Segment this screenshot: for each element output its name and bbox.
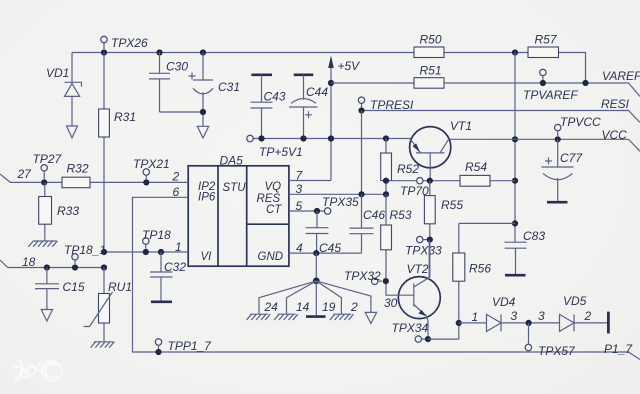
svg-text:VD4: VD4 xyxy=(492,295,516,309)
svg-text:R32: R32 xyxy=(67,162,89,176)
junction rail +5V vertical xyxy=(328,135,334,141)
test point TPX34 xyxy=(392,321,429,342)
svg-text:R54: R54 xyxy=(465,160,487,174)
test point TP18 xyxy=(142,228,171,249)
svg-text:TPVCC: TPVCC xyxy=(560,115,601,129)
svg-text:RESI: RESI xyxy=(601,97,630,111)
svg-text:R52: R52 xyxy=(397,162,419,176)
ground bar below C77 xyxy=(547,201,568,204)
junction R51 tap xyxy=(328,80,334,86)
ground arrow below VD1 xyxy=(67,126,78,138)
svg-text:3: 3 xyxy=(511,309,518,323)
svg-text:C83: C83 xyxy=(523,229,545,243)
wire fan to ground 14 xyxy=(287,281,317,314)
test point TP18_1 xyxy=(64,243,106,264)
wire top +5V line xyxy=(72,53,586,84)
svg-text:R33: R33 xyxy=(57,204,79,218)
test point TPX35 xyxy=(322,195,359,214)
capacitor C46 xyxy=(350,194,386,253)
svg-text:TPX32: TPX32 xyxy=(344,269,381,283)
svg-text:C43: C43 xyxy=(264,90,286,104)
svg-text:RU1: RU1 xyxy=(108,280,132,294)
svg-text:5: 5 xyxy=(296,199,303,213)
wire pin3 row xyxy=(289,182,386,196)
svg-text:+5V: +5V xyxy=(338,59,361,73)
svg-text:R57: R57 xyxy=(535,33,558,47)
resistor R53 xyxy=(381,194,412,295)
svg-text:VD5: VD5 xyxy=(563,294,587,308)
junction 18 row C15 xyxy=(44,264,50,270)
junction top wire at C31 xyxy=(200,49,206,55)
svg-text:1: 1 xyxy=(175,240,182,254)
junction x515 VCC row xyxy=(512,136,518,142)
wire pin4 down to ground star xyxy=(315,253,317,281)
junction R50/R57 xyxy=(512,49,518,55)
svg-text:C15: C15 xyxy=(63,280,85,294)
wire VAREF row xyxy=(444,83,640,97)
svg-text:6: 6 xyxy=(173,185,180,199)
junction pin5 C45 xyxy=(314,208,320,214)
watermark xyxy=(14,361,62,381)
svg-text:TPX26: TPX26 xyxy=(111,36,148,50)
svg-text:P1_7: P1_7 xyxy=(604,342,633,356)
svg-text:TP+5V1: TP+5V1 xyxy=(259,145,303,159)
test point TP+5V1 xyxy=(247,135,303,159)
wire fan to ground 2 xyxy=(316,281,358,314)
svg-text:CT: CT xyxy=(266,204,282,216)
wire x515 vertical xyxy=(514,53,516,243)
capacitor C44 polar xyxy=(289,75,328,139)
junction pin1 row TP18 xyxy=(143,249,149,255)
capacitor C30 xyxy=(149,53,188,113)
diode VD4 xyxy=(487,295,516,331)
resistor R54 xyxy=(460,160,490,186)
svg-text:C32: C32 xyxy=(164,260,186,274)
wire emitter to VD row xyxy=(428,323,459,339)
svg-text:2: 2 xyxy=(584,309,592,323)
svg-text:TPX21: TPX21 xyxy=(133,157,170,171)
svg-text:4: 4 xyxy=(296,241,303,255)
wire pin1 row xyxy=(104,240,188,254)
test point TP27 xyxy=(33,152,63,185)
test point TPP1_7 xyxy=(155,339,212,355)
wire RESI row xyxy=(362,111,640,123)
junction 18 row TP18_1 xyxy=(72,264,78,270)
junction pin3 row R52/R53 xyxy=(383,191,389,197)
junction base row VT1 xyxy=(427,178,433,184)
junction top wire at TPX26 xyxy=(101,49,107,55)
svg-text:2: 2 xyxy=(172,170,180,184)
svg-text:1: 1 xyxy=(472,310,479,324)
junction rail R52 xyxy=(383,135,389,141)
node VAREF xyxy=(602,69,640,83)
ground bar above C44 xyxy=(294,74,314,77)
capacitor C77 polar xyxy=(542,139,584,201)
test point TPX57 xyxy=(525,323,576,358)
ground hatched 24 xyxy=(247,314,271,320)
svg-text:R31: R31 xyxy=(114,110,136,124)
junction 18 row RU1 xyxy=(101,264,107,270)
power +5V arrow xyxy=(328,56,360,181)
svg-text:27: 27 xyxy=(17,167,33,181)
test point TPX33 xyxy=(405,236,442,257)
svg-text:TP18: TP18 xyxy=(142,228,171,242)
svg-text:24: 24 xyxy=(264,300,279,314)
svg-text:TPX33: TPX33 xyxy=(405,244,442,258)
capacitor C43 xyxy=(251,75,286,139)
capacitor C32 xyxy=(150,252,186,301)
svg-text:14: 14 xyxy=(296,300,310,314)
svg-text:R50: R50 xyxy=(420,33,442,47)
svg-text:30: 30 xyxy=(384,296,398,310)
wire C30/C31 bottom tie xyxy=(160,112,204,126)
resistor R32 xyxy=(62,162,90,188)
svg-text:TPVAREF: TPVAREF xyxy=(523,88,578,102)
ground hatched 14 xyxy=(274,314,298,320)
wire pin6 to bottom row P1_7 xyxy=(133,185,640,360)
ground bar above C43 xyxy=(251,74,272,77)
transistor VT1 xyxy=(410,119,472,181)
capacitor C45 xyxy=(306,211,342,255)
resistor R56 xyxy=(453,223,515,323)
svg-text:TPX35: TPX35 xyxy=(322,195,359,209)
svg-text:C44: C44 xyxy=(306,85,328,99)
svg-text:C46: C46 xyxy=(363,208,385,222)
test point TPX26 xyxy=(101,36,148,50)
resistor R52 xyxy=(381,139,420,195)
wire fan to ground 19 xyxy=(316,281,335,316)
svg-text:C31: C31 xyxy=(218,80,240,94)
test point TPX32 xyxy=(344,269,389,284)
svg-text:VAREF: VAREF xyxy=(602,69,640,83)
junction pin1 row C32 xyxy=(158,249,164,255)
test point TPRESI xyxy=(358,97,414,114)
test point TPVAREF xyxy=(523,69,578,102)
wire VT2 emitter down xyxy=(427,317,428,340)
test point TPX21 xyxy=(133,157,170,185)
svg-text:TP18_1: TP18_1 xyxy=(64,243,106,257)
capacitor C15 xyxy=(35,268,85,310)
junction C31 bottom xyxy=(200,109,206,115)
transistor VT2 xyxy=(384,262,440,319)
diode VD5 xyxy=(560,294,587,331)
svg-text:TP27: TP27 xyxy=(33,152,63,166)
wire VCC row xyxy=(449,139,640,151)
terminal bar P1 xyxy=(607,312,610,334)
svg-text:C30: C30 xyxy=(166,60,188,74)
svg-text:R51: R51 xyxy=(420,64,442,78)
ground hatched below RU1 xyxy=(91,342,115,348)
svg-text:R56: R56 xyxy=(469,262,491,276)
resistor R51 xyxy=(331,64,444,89)
diode VD1 xyxy=(46,53,82,127)
svg-text:VT1: VT1 xyxy=(450,119,472,133)
resistor R57 xyxy=(528,33,559,58)
ground arrow below C31 xyxy=(197,126,208,138)
IC DA5 box xyxy=(188,154,289,267)
svg-text:TPX34: TPX34 xyxy=(392,321,429,335)
svg-text:TPP1_7: TPP1_7 xyxy=(168,339,213,353)
svg-text:VT2: VT2 xyxy=(407,262,429,276)
svg-text:TPRESI: TPRESI xyxy=(370,98,414,112)
svg-text:VCC: VCC xyxy=(602,128,628,142)
svg-text:3: 3 xyxy=(296,182,303,196)
wire VT2 collector up xyxy=(428,240,430,278)
ground hatched 2 xyxy=(330,314,354,320)
wire VT1 base row xyxy=(386,180,515,182)
svg-text:18: 18 xyxy=(22,255,36,269)
junction VD row left xyxy=(456,320,462,326)
junction rail C43 xyxy=(258,135,264,141)
test point TPVCC xyxy=(555,115,602,142)
capacitor C83 xyxy=(505,229,546,274)
resistor R55 xyxy=(424,181,463,278)
svg-text:C77: C77 xyxy=(560,151,583,165)
wire net 18 row xyxy=(0,255,104,269)
junction VD row middle xyxy=(526,320,532,326)
ground hatched below R33 xyxy=(28,241,57,247)
junction base row R52 xyxy=(383,178,389,184)
capacitor C31 polar xyxy=(189,53,241,113)
wire fan to arrow ground xyxy=(316,281,371,313)
ground bar below C83 xyxy=(505,274,526,277)
svg-text:VD1: VD1 xyxy=(46,66,69,80)
wire +5V rail xyxy=(253,138,410,140)
node RESI xyxy=(601,97,630,111)
svg-text:3: 3 xyxy=(538,309,545,323)
wire pin5 row xyxy=(289,199,324,213)
wire fan to ground 24 xyxy=(259,281,316,314)
ground bar below C32 xyxy=(151,300,172,303)
wire pin2 row net 27 xyxy=(0,167,188,184)
junction VAREF/R57 corner xyxy=(582,80,588,86)
junction pin1 row R31 xyxy=(101,249,107,255)
svg-text:VQ: VQ xyxy=(265,181,282,193)
svg-text:STU: STU xyxy=(223,182,247,194)
svg-text:19: 19 xyxy=(322,300,336,314)
junction pin3 row TPRESI vertical xyxy=(358,191,364,197)
junction rail C44 xyxy=(300,135,306,141)
junction pin4 C45 xyxy=(313,250,319,256)
wire pin7 to +5V xyxy=(289,169,331,183)
svg-text:DA5: DA5 xyxy=(220,154,244,168)
svg-text:IP6: IP6 xyxy=(198,192,216,204)
junction top wire at C30 xyxy=(156,49,162,55)
svg-text:TPX57: TPX57 xyxy=(538,344,576,358)
junction x515 R54 xyxy=(512,178,518,184)
svg-text:R55: R55 xyxy=(441,198,463,212)
node P1_7 xyxy=(604,342,633,356)
svg-text:R53: R53 xyxy=(390,208,412,222)
wire pin4 row xyxy=(289,241,362,255)
resistor R50 xyxy=(414,33,444,58)
test point TP70 xyxy=(400,178,429,199)
junction emitter TPX34 xyxy=(425,336,431,342)
junction x515 R56 wire xyxy=(512,220,518,226)
wire TPRESI to pin3 row xyxy=(361,111,363,195)
node VCC xyxy=(602,128,628,142)
ground bar 19 xyxy=(306,315,326,318)
ground arrow below C15 xyxy=(41,310,52,322)
svg-text:2: 2 xyxy=(350,300,358,314)
svg-text:GND: GND xyxy=(258,251,284,263)
resistor R33 xyxy=(39,182,80,240)
resistor R31 xyxy=(99,53,136,253)
varistor RU1 xyxy=(84,268,133,342)
svg-text:VI: VI xyxy=(201,251,213,263)
ground arrow of fan xyxy=(365,312,376,323)
wire VD row xyxy=(459,309,609,324)
junction ground star xyxy=(313,278,320,285)
